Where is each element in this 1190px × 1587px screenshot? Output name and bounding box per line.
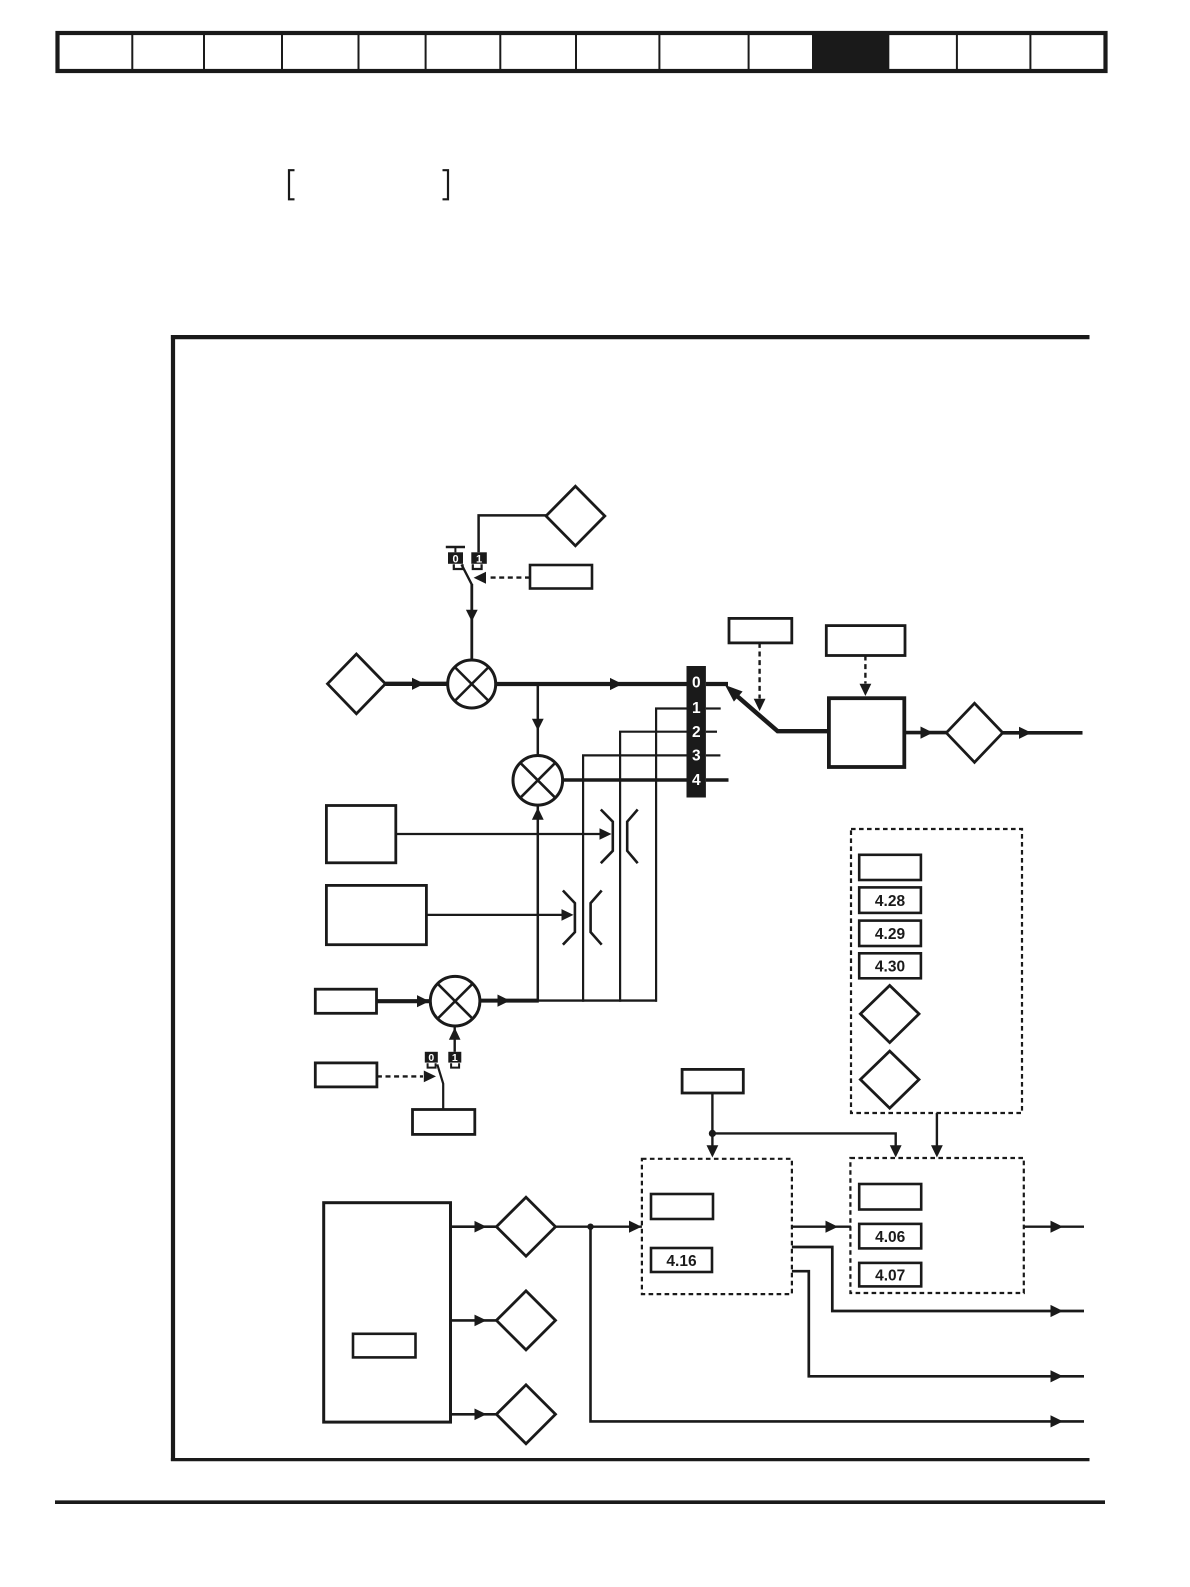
parameter box 4.30 [859,953,921,978]
wire junction drop to multiplier M2 [537,684,540,756]
wire J1 to dashed group G2 top [711,1133,713,1146]
wire output A from G2 [792,1247,1084,1311]
clamp K2 right jaw [591,891,602,945]
mux input labels 0-4 [692,675,701,789]
dashed control wire P9 to selector arm [758,643,760,699]
selector arm arrowhead at mux [725,685,743,702]
clamp K2 left jaw [563,891,575,945]
wire G1 to dashed group G3 [936,1113,938,1146]
wire P5 to clamp K2 [426,914,570,916]
wire output B from G2 [792,1271,1084,1376]
multiplier M3 [430,976,480,1026]
switch SW1 terminal 0 contact hook [454,564,463,569]
bracket [ left [289,170,295,199]
bracket ] right [443,170,449,199]
svg-text:1: 1 [692,700,701,717]
parameter box 4.16 [651,1248,712,1272]
diagram frame bottom edge [171,1458,1090,1461]
switch SW1 terminal 1 contact hook [473,564,482,569]
parameter box P4 (upper left feed) [326,806,395,863]
parameter box P3 (SW1 control) [530,565,592,589]
wire J2 down to bottom output [591,1227,1085,1422]
selector arm wire to block B1 [732,691,830,731]
diagram frame left edge [171,335,175,1461]
wire P12 down to junction [711,1093,713,1135]
mux row 2 wire [619,731,687,733]
dashed control wire P10 to block B1 [864,656,866,684]
wire M3 output to risers [480,999,539,1003]
riser wire to mux row 1 [655,709,657,1002]
junction node J2 [587,1224,593,1230]
wire M1 to mux input 0 [496,682,687,686]
block B2 (large lower-left block) [324,1203,451,1422]
parameter box 4.29 [859,921,921,946]
parameter box P12 (top of lower section) [682,1069,743,1093]
parameter box P6 (feed of multiplier M3) [315,989,376,1013]
wire B2 to diamond PA [451,1225,498,1228]
wire J1 to dashed group G3 top [712,1133,895,1146]
mux selector bar [687,666,706,798]
riser wire to mux row 3 [582,755,584,1001]
svg-text:1: 1 [452,1052,458,1064]
footer rule [55,1500,1105,1504]
dashed control wire P7 to SW2 [377,1075,423,1077]
dashed control wire P3 to SW1 [488,576,530,578]
diamond G1d1 [860,986,919,1043]
parameter box G1a (blank) [859,855,921,880]
wire SW1 terminal 1 to diamond P2 [479,515,547,552]
dashed group G1 (parameters 4.28-4.30) [851,829,1022,1113]
svg-text:4.28: 4.28 [875,893,906,910]
parameter box 4.06 [859,1224,921,1249]
diagram frame top edge [171,335,1090,339]
svg-text:4: 4 [692,772,701,789]
parameter box P5 (lower left feed) [326,885,426,944]
clamp K1 left jaw [601,810,613,864]
svg-text:3: 3 [692,748,701,765]
parameter box G3a (blank) [859,1184,921,1210]
wire M2 to mux input 4 [563,778,687,782]
header navigation table [58,33,1106,71]
wire G2 to G3 [792,1225,851,1227]
wire P1 to multiplier M1 [385,682,448,686]
wire B2 to diamond PC [451,1413,498,1416]
parameter box P9 (above selector arm) [729,618,792,643]
header active tab (black cell) [812,32,889,73]
diamond PA [496,1197,555,1256]
svg-text:0: 0 [428,1052,434,1064]
wire B1 to diamond P11 [904,731,946,735]
switch SW2 terminal 0 [425,1052,438,1064]
wire output from P11 to frame edge [1003,731,1083,735]
wire SW2 terminal 1 to M3 [454,1027,456,1052]
switch SW2 terminal 1 contact hook [451,1063,459,1067]
svg-text:1: 1 [476,553,482,565]
parameter box P8 (below SW2) [413,1110,475,1135]
svg-text:0: 0 [692,675,701,692]
mux row 3 wire [582,754,687,756]
switch SW1 terminal 0 [448,552,463,565]
switch SW1 default T-bar [446,547,465,552]
parameter box inside B2 [353,1334,416,1358]
switch SW2 terminal 1 [448,1052,461,1064]
diamond PB [496,1291,555,1350]
parameter box P7 (SW2 control) [315,1063,377,1087]
diamond G1d2 [860,1051,919,1108]
switch SW1 terminal 1 [471,552,487,565]
parameter box 4.28 [859,887,921,913]
mux row 1 wire [655,707,687,709]
wire M2 bottom feed [537,805,540,1001]
dashed group G3 (parameters 4.06-4.07) [850,1158,1023,1293]
wire P6 to multiplier M3 [377,999,431,1003]
parameter box G2a (blank) [651,1194,713,1219]
svg-text:0: 0 [452,553,458,565]
diamond P2 (read-only parameter, top) [546,486,605,546]
svg-text:4.29: 4.29 [875,926,906,943]
switch SW1 arm [462,565,472,585]
block B1 (square function block) [829,698,904,767]
junction node J1 [709,1130,716,1137]
clamp K1 right jaw [627,810,638,864]
mux row 0 output stub [706,682,728,686]
svg-text:4.06: 4.06 [875,1229,906,1246]
dashed group G2 (parameter 4.16) [642,1159,792,1294]
parameter box 4.07 [859,1263,921,1287]
parameter box P10 (above block B1) [826,626,905,656]
svg-text:4.16: 4.16 [666,1253,697,1270]
riser wire to mux row 2 [619,732,621,1002]
mux row 4 output stub [706,778,729,782]
multiplier M1 [448,660,496,708]
svg-text:4.07: 4.07 [875,1267,905,1284]
wire output from G3 [1024,1225,1084,1227]
multiplier M2 [513,756,563,806]
switch SW2 terminal 0 contact hook [428,1063,436,1067]
diamond PC [496,1385,555,1444]
svg-text:2: 2 [692,724,701,741]
wire P4 to clamp K1 [396,833,608,835]
switch SW2 arm [437,1064,443,1110]
wire B2 to diamond PB [451,1319,498,1322]
wire SW1 arm to multiplier M1 [470,584,473,661]
svg-text:4.30: 4.30 [875,959,905,976]
diamond P11 (output parameter) [946,703,1002,762]
diamond P1 (reference input, left) [328,654,386,714]
wire PA to dashed group G2 [556,1225,642,1227]
